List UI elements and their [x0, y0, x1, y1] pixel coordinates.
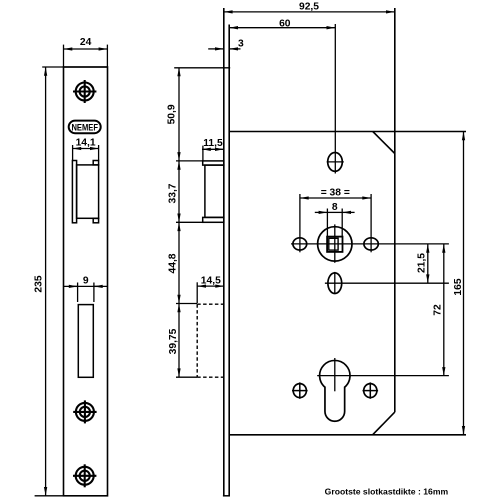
dim 9 ext lines [77, 283, 79, 303]
case bottom edge [229, 434, 466, 436]
svg-text:24: 24 [80, 37, 92, 48]
dim 8 line and arrows [327, 211, 342, 213]
screw hole right of cylinder [363, 382, 379, 398]
side faceplate outer edge [223, 8, 225, 496]
dim 3 arrows [208, 48, 224, 50]
dim 60 ext line down to upper hole [334, 24, 336, 174]
screw hole middle [73, 400, 96, 423]
svg-text:11,5: 11,5 [203, 138, 223, 149]
dim 235 line [45, 67, 47, 496]
upper oval hole [328, 153, 343, 172]
screw hole left of cylinder [292, 382, 308, 398]
follower centre lines [291, 243, 449, 245]
svg-text:21,5: 21,5 [416, 253, 427, 273]
dim 14,5 ext [196, 282, 198, 303]
dim 60 line [229, 27, 335, 29]
dim 14,5 line [197, 285, 224, 287]
latch side view [203, 161, 224, 222]
dim 39,75 line [178, 304, 180, 378]
faceplate outline [64, 67, 108, 496]
side faceplate bottom cap [223, 495, 230, 497]
dim 8 ext lines [326, 209, 328, 237]
svg-text:44,8: 44,8 [168, 253, 179, 273]
case chamfer bottom right [373, 412, 395, 435]
NEMEF logo oval [69, 121, 101, 134]
extension line, dim 50,9 top [174, 67, 230, 69]
svg-text:50,9: 50,9 [167, 104, 178, 124]
svg-text:14,5: 14,5 [201, 275, 221, 286]
latch bolt front view [72, 161, 98, 223]
deadbolt front view [78, 305, 93, 378]
extension line, faceplate top left [42, 66, 107, 68]
svg-text:92,5: 92,5 [299, 1, 319, 12]
dim 9 line (crossing plate) [64, 285, 108, 287]
dim 14,1 line [72, 148, 98, 150]
dim 33,7 line [178, 161, 180, 222]
svg-text:= 38 =: = 38 = [321, 187, 350, 198]
svg-text:60: 60 [279, 19, 291, 30]
dim 44,8 line [178, 222, 180, 303]
dim 24 extension lines [63, 45, 65, 67]
side faceplate inner edge [228, 25, 230, 496]
dim 165 line [463, 132, 465, 435]
dim 14,1 ext lines [72, 145, 74, 161]
svg-text:165: 165 [453, 278, 464, 295]
dim 50,9 line [178, 68, 180, 161]
left dim column ext lines [176, 160, 204, 162]
svg-text:72: 72 [433, 304, 444, 316]
case right edge [394, 8, 396, 412]
dim 92,5 line [224, 11, 395, 13]
dim 38 ext lines [299, 194, 301, 252]
dim 38 line [300, 197, 371, 199]
svg-text:33,7: 33,7 [168, 183, 179, 203]
svg-text:Grootste slotkastdikte : 16mm: Grootste slotkastdikte : 16mm [325, 488, 449, 497]
euro cylinder profile [320, 360, 350, 421]
svg-text:NEMEF: NEMEF [71, 122, 98, 132]
screw hole bottom [73, 464, 96, 487]
svg-text:235: 235 [34, 275, 45, 292]
svg-text:14,1: 14,1 [76, 137, 96, 148]
dim 72 line [443, 244, 445, 376]
case chamfer top right [373, 132, 395, 154]
svg-text:39,75: 39,75 [168, 328, 179, 354]
dim 24 line [64, 48, 108, 50]
deadbolt side view dashed [197, 304, 224, 377]
follower circle [318, 227, 352, 261]
lower oval hole [328, 273, 342, 294]
hole left of follower [293, 238, 307, 250]
screw hole top [73, 80, 96, 103]
cylinder centre lines [317, 375, 449, 377]
case top edge [229, 131, 466, 133]
svg-text:3: 3 [238, 38, 244, 49]
dim 11,5 line [202, 148, 224, 150]
follower square 8mm [327, 237, 342, 252]
dim 21,5 line [427, 244, 429, 283]
svg-text:8: 8 [332, 202, 338, 213]
extension line, faceplate bottom left [35, 495, 108, 497]
svg-text:9: 9 [83, 275, 89, 286]
hole right of follower [364, 238, 378, 250]
dim 11,5 ext [202, 146, 204, 161]
